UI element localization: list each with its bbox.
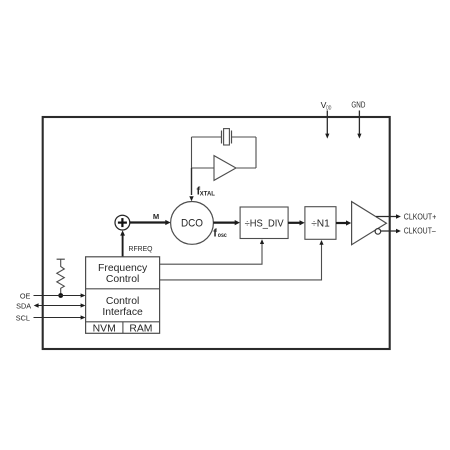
inversion bubble xyxy=(375,229,381,235)
frequency control / control interface block U3 xyxy=(86,257,160,334)
svg-text:RAM: RAM xyxy=(129,324,152,335)
svg-text:RFREQ: RFREQ xyxy=(129,244,153,253)
IC enclosure box xyxy=(43,117,390,349)
svg-text:÷N1: ÷N1 xyxy=(311,219,330,230)
svg-text:Control: Control xyxy=(106,296,140,307)
svg-text:GND: GND xyxy=(351,100,365,110)
pin label SDA xyxy=(16,301,31,310)
wire: oscillator loop top-left segment xyxy=(192,136,222,138)
wire: DCO to HS_DIV xyxy=(213,220,240,225)
VDD pin xyxy=(321,100,332,139)
summing node S1 xyxy=(115,215,130,230)
wire: oscillator loop top-right segment xyxy=(232,136,257,138)
wire: HS_DIV to N1 xyxy=(288,220,305,225)
wire SDA (bidirectional) xyxy=(34,303,86,307)
svg-text:osc: osc xyxy=(218,232,227,239)
pin label CLKOUT- xyxy=(404,225,436,235)
svg-text:Interface: Interface xyxy=(102,307,143,318)
resistor R1 pullup on OE xyxy=(57,259,65,295)
svg-text:SDA: SDA xyxy=(16,301,31,310)
wire: N1 to output buffer xyxy=(336,220,351,225)
DCO U1 xyxy=(171,202,214,245)
label NVM xyxy=(93,324,116,335)
svg-text:M: M xyxy=(153,212,159,221)
output buffer U2 xyxy=(352,202,387,245)
svg-text:SCL: SCL xyxy=(16,313,30,322)
wire: frequency control to HS_DIV xyxy=(160,239,265,264)
label Control Interface xyxy=(102,296,143,318)
oscillator amplifier xyxy=(214,156,236,181)
svg-text:XTAL: XTAL xyxy=(200,190,215,197)
wire SCL xyxy=(34,315,86,319)
GND pin xyxy=(351,100,365,139)
svg-text:OE: OE xyxy=(20,291,31,300)
divider HS_DIV xyxy=(240,207,288,239)
wire fXTAL down to DCO with arrow xyxy=(189,168,193,201)
svg-text:DCO: DCO xyxy=(181,218,203,230)
pin label SCL xyxy=(16,313,30,322)
label M xyxy=(153,212,159,221)
junction dot: resistor to OE wire xyxy=(58,293,63,298)
wire: oscillator loop left vertical xyxy=(191,137,193,168)
wire: amp output to loop right xyxy=(236,167,256,169)
wire: frequency control to N1 xyxy=(160,240,324,280)
label RAM xyxy=(129,324,152,335)
svg-text:Frequency: Frequency xyxy=(98,263,148,274)
pin label CLKOUT+ xyxy=(404,211,437,221)
svg-text:Control: Control xyxy=(106,274,140,285)
svg-text:CLKOUT–: CLKOUT– xyxy=(404,225,436,235)
wire: amp input from loop left xyxy=(192,167,215,169)
wire CLKOUT- xyxy=(381,229,401,233)
wire OE xyxy=(34,293,86,297)
wire CLKOUT+ xyxy=(376,214,401,218)
label fXTAL xyxy=(197,185,215,197)
label Frequency Control xyxy=(98,263,148,285)
svg-text:f: f xyxy=(213,227,217,239)
svg-text:CLKOUT+: CLKOUT+ xyxy=(404,211,437,221)
label RFREQ xyxy=(129,244,153,253)
pin label OE xyxy=(20,291,31,300)
svg-text:NVM: NVM xyxy=(93,324,116,335)
wire RFREQ from Frequency Control up to summing node xyxy=(120,230,125,256)
label fosc xyxy=(213,227,227,239)
svg-text:DD: DD xyxy=(326,105,331,111)
crystal X1 xyxy=(222,129,232,145)
wire: oscillator loop right vertical xyxy=(255,137,257,168)
divider N1 xyxy=(305,207,336,240)
wire M: summing node to DCO xyxy=(130,220,171,225)
svg-text:÷HS_DIV: ÷HS_DIV xyxy=(245,219,284,230)
